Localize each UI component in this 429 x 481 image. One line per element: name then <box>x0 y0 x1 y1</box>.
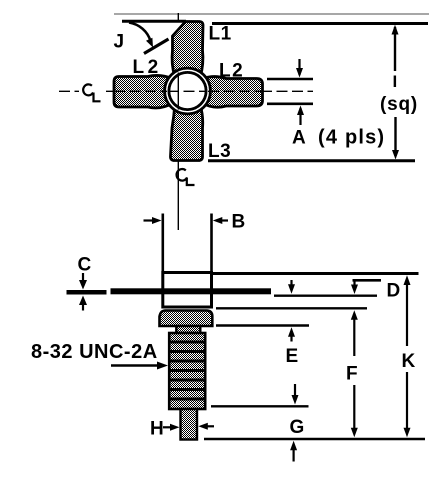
dimension K <box>404 275 411 285</box>
arm bottom extension line <box>274 295 377 297</box>
dimension E top arrow <box>290 280 292 286</box>
svg-text:K: K <box>402 351 416 372</box>
centerline symbol bottom <box>177 169 195 185</box>
hub top extension line <box>212 272 419 275</box>
svg-text:I: I <box>393 72 398 91</box>
shaft tip <box>181 409 198 440</box>
svg-text:L2: L2 <box>133 57 162 78</box>
svg-text:F: F <box>346 364 358 385</box>
thread leader arrow <box>111 364 158 367</box>
faint page line <box>114 13 429 15</box>
shaft bottom extension line <box>211 405 309 407</box>
svg-text:L1: L1 <box>209 24 232 45</box>
svg-text:G: G <box>290 417 305 438</box>
svg-text:(4 pls): (4 pls) <box>318 127 385 149</box>
neck <box>176 326 200 333</box>
thin bar extension left <box>67 290 107 295</box>
svg-text:L3: L3 <box>208 141 231 162</box>
threaded shaft <box>169 333 205 409</box>
bottom extension line <box>204 438 425 441</box>
horizontal centerline <box>59 90 313 92</box>
hub collar web <box>165 68 211 114</box>
bottom arm <box>171 105 203 160</box>
J reference line <box>122 20 186 23</box>
dimension H arrows <box>163 426 171 428</box>
svg-text:H: H <box>150 419 164 440</box>
hub circle <box>169 72 206 109</box>
dimension B arrows <box>144 219 154 221</box>
svg-text:A: A <box>292 128 306 149</box>
svg-text:B: B <box>232 212 246 233</box>
thread bands <box>169 342 205 399</box>
dimension A extension lines <box>267 78 313 81</box>
right arm <box>202 77 262 108</box>
centerline over arms <box>114 90 167 92</box>
washer top extension line <box>216 307 367 309</box>
svg-text:D: D <box>387 281 401 302</box>
dimension E bottom arrow <box>288 327 295 337</box>
hub white sliver <box>167 70 208 111</box>
top arm <box>172 22 203 77</box>
dimension A arrows <box>300 59 301 125</box>
dimension G bottom arrow <box>290 441 297 451</box>
washer bottom extension line <box>216 324 309 326</box>
J angle arc <box>129 23 151 42</box>
dimension F <box>351 310 358 320</box>
svg-text:8-32 UNC-2A: 8-32 UNC-2A <box>31 341 158 363</box>
hub rectangle <box>163 273 212 308</box>
bottom extension line <box>208 159 415 162</box>
dimension I <box>394 27 397 156</box>
svg-text:C: C <box>78 255 92 276</box>
arms bar side view <box>111 288 272 294</box>
left arm <box>114 75 173 108</box>
svg-text:(sq): (sq) <box>380 94 418 115</box>
washer <box>160 311 213 327</box>
J chamfer extension line <box>144 39 169 54</box>
svg-text:E: E <box>286 346 299 367</box>
svg-text:L2: L2 <box>219 61 244 82</box>
centerline symbol left <box>83 84 100 101</box>
dimension B extension lines <box>162 214 165 273</box>
top extension line <box>212 22 428 25</box>
vertical centerline <box>177 13 179 230</box>
dimension C arrows <box>82 273 84 282</box>
svg-text:J: J <box>114 32 125 53</box>
centerlines inside circle <box>177 73 179 110</box>
dimension D <box>353 279 382 282</box>
dimension G top arrow <box>294 384 296 398</box>
